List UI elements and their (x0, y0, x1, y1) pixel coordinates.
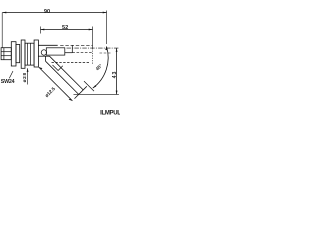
extension line x=40 (40, 27, 42, 34)
dimension 52 line (41, 29, 93, 31)
rod solid segment right cap (71, 45, 73, 52)
svg-text:90: 90 (44, 9, 50, 15)
connector thread line 1 (1, 51, 11, 53)
ring section (25, 43, 34, 65)
flange dim arrow up (27, 68, 29, 72)
dashed straight probe top (60, 44, 92, 46)
dimension 90 line (3, 12, 107, 14)
connector divider (3, 48, 5, 60)
dimension 90 left arrow (3, 12, 7, 14)
arc bottom arrow (93, 85, 97, 88)
probe tip face (75, 86, 87, 98)
extension line left (connector face) (1, 13, 3, 48)
rod bend inner edge (53, 65, 63, 71)
angle leg extension segment (84, 81, 94, 91)
body tube top edge (38, 44, 57, 46)
dashed rod bottom right of 92 (100, 52, 112, 54)
extension x=92 dotted continuation (92, 51, 94, 65)
set screw circle (41, 50, 46, 55)
washer flange 1 (21, 40, 25, 68)
nut second facet (16, 45, 20, 63)
dimension 52 right arrow (89, 29, 93, 31)
svg-text:ø12.5: ø12.5 (44, 86, 56, 98)
43 top arrow (116, 48, 118, 52)
dashed bend reference horizontal (52, 61, 90, 63)
inner sleeve (46, 48, 65, 55)
dimension 90 right arrow (103, 12, 107, 14)
ring divider 2 (29, 43, 31, 65)
flange dim 24 vertical line (27, 68, 29, 84)
dimension 52 left arrow (41, 29, 45, 31)
SW24 leader line (9, 71, 13, 78)
dashed straight probe bottom (65, 52, 73, 54)
arc top arrow (105, 46, 107, 50)
probe edge B inner (46, 61, 79, 94)
hex nut SW24 (11, 42, 16, 66)
flange 2 (34, 40, 38, 67)
diagonal top arrow (39, 67, 43, 69)
svg-text:52: 52 (62, 25, 68, 31)
tip bottom extension line (74, 93, 119, 95)
bend vertical face (45, 56, 47, 61)
43 bottom arrow (116, 91, 118, 95)
diagonal bottom arrow (69, 99, 73, 101)
svg-text:43: 43 (112, 71, 118, 79)
dashed rod bottom (72, 52, 92, 54)
diagonal dimension line (39, 67, 73, 101)
svg-text:ø28: ø28 (22, 72, 28, 82)
connector body (1, 48, 11, 60)
dimension 43 line (116, 48, 118, 94)
ring divider 1 (26, 43, 28, 65)
probe edge A outer (50, 56, 84, 90)
svg-text:SW24: SW24 (1, 79, 15, 85)
body tube bottom edge (38, 55, 49, 57)
svg-text:ILMPUL: ILMPUL (100, 111, 120, 117)
angle arc 45 (93, 47, 108, 89)
centerline dash-dot (67, 47, 120, 49)
connector thread line 2 (1, 55, 11, 57)
extension line x=106 (106, 11, 108, 45)
svg-text:45°: 45° (95, 63, 104, 72)
extension line x=92 probe end (92, 27, 94, 50)
